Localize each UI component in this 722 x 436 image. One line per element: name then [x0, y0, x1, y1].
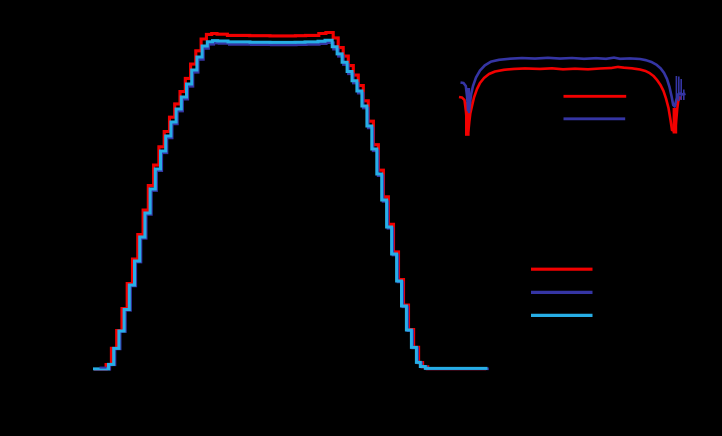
main legend red sample line [531, 268, 593, 271]
inset legend dark-blue sample line [564, 117, 626, 120]
inset blue right tail mark [683, 90, 685, 101]
inset red right dip bar [673, 108, 678, 134]
inset blue right dip noise spikes [676, 76, 681, 101]
inset red left dip bar [465, 102, 470, 136]
main red stepped profile curve [94, 33, 486, 370]
main cyan stepped profile curve [93, 40, 488, 369]
inset dark-blue curve with edge dips [461, 58, 686, 112]
inset legend red sample line [564, 95, 627, 98]
inset red curve with edge dips [459, 67, 681, 132]
main legend dark-blue sample line [531, 291, 593, 294]
inset blue left dip bar [467, 88, 470, 111]
main legend cyan sample line [531, 314, 593, 317]
main dark-blue stepped profile curve [94, 43, 489, 370]
dark-blue overlay dash on left baseline [100, 367, 107, 369]
